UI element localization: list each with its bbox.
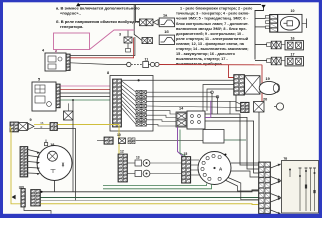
svg-text:10: 10 — [291, 9, 295, 13]
svg-text:17: 17 — [291, 52, 295, 56]
svg-text:9: 9 — [30, 118, 32, 122]
svg-text:реле стартера; 11 - электромаг: реле стартера; 11 - электромагнитный — [176, 37, 249, 41]
svg-text:включения звезды ЭМУ; 8 - блок: включения звезды ЭМУ; 8 - блок пре- — [176, 27, 247, 31]
svg-text:генератора.: генератора. — [60, 24, 83, 29]
svg-text:16: 16 — [291, 36, 295, 40]
svg-text:11: 11 — [145, 57, 149, 61]
svg-text:3: 3 — [119, 33, 121, 37]
svg-text:15: 15 — [184, 152, 188, 156]
svg-text:«подсос»..: «подсос».. — [60, 11, 81, 16]
svg-text:20: 20 — [263, 97, 267, 101]
svg-text:блок контрольных ламп; 7 - доп: блок контрольных ламп; 7 - дополнит. — [176, 22, 249, 26]
svg-text:19: 19 — [266, 77, 270, 81]
svg-text:чения ЭМУ; 5 - термодистанц. Э: чения ЭМУ; 5 - термодистанц. ЭМУ; 6 - — [176, 17, 249, 21]
svg-text:тв: тв — [284, 156, 288, 160]
svg-text:13: 13 — [136, 156, 140, 160]
svg-text:точильца; 3 - генератор; 4 - р: точильца; 3 - генератор; 4 - реле вклю- — [176, 12, 250, 16]
svg-text:1 - реле блокировки стартера;: 1 - реле блокировки стартера; 2 - реле — [180, 7, 252, 11]
svg-text:клапан; 12, 13 - фонарные свеч: клапан; 12, 13 - фонарные свечи, на — [176, 42, 245, 46]
svg-text:ЧБ: ЧБ — [40, 121, 44, 125]
svg-text:стартер; 14 - выключатель зажи: стартер; 14 - выключатель зажигания; — [176, 47, 248, 51]
svg-text:10: 10 — [117, 133, 121, 137]
svg-text:12: 12 — [120, 150, 124, 154]
svg-text:18: 18 — [50, 143, 54, 147]
svg-text:15 - аккумулятор; 16 - дальнег: 15 - аккумулятор; 16 - дальнего — [176, 52, 236, 56]
svg-text:1б: 1б — [164, 30, 169, 34]
svg-text:8: 8 — [107, 71, 109, 75]
svg-text:выключатель, стартер; 17 -: выключатель, стартер; 17 - — [176, 57, 228, 61]
svg-text:дохранителей; 9 - контрольная;: дохранителей; 9 - контрольная; 10 - — [176, 32, 244, 36]
svg-text:5: 5 — [38, 78, 40, 82]
